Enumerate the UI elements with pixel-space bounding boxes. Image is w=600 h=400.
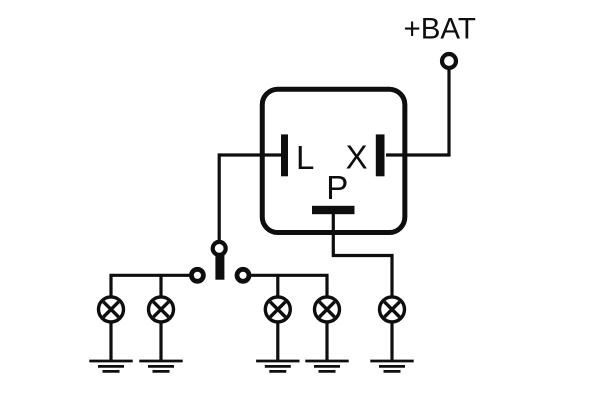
wire: left branch from switch contact to lamps (111, 275, 190, 298)
switch pivot circle (213, 242, 226, 255)
ground 5 (370, 361, 413, 371)
wire: right branch stem lamp 3 (276, 275, 279, 298)
terminal bar P (312, 206, 355, 214)
wire: L terminal left and down to switch pivot (219, 155, 284, 243)
switch right contact (237, 269, 249, 281)
switch left contact (191, 269, 203, 281)
wire: P terminal down, right, down to pilot lamp (333, 212, 392, 298)
terminal bar X (376, 134, 385, 176)
wire: lamp 4 to ground (325, 322, 328, 361)
battery terminal circle (442, 54, 456, 68)
ground 1 (89, 361, 132, 371)
label P (326, 169, 348, 206)
wire: left branch stem lamp 2 (159, 275, 162, 298)
lamp 5 (pilot) (380, 297, 405, 322)
svg-text:L: L (296, 139, 314, 176)
wire: +BAT terminal down and left to X terminal (386, 66, 449, 155)
lamp 3 (265, 297, 290, 322)
lamp 2 (149, 297, 174, 322)
switch lever (215, 253, 224, 280)
wire: lamp 3 to ground (276, 322, 279, 361)
relay box U1 (262, 89, 405, 232)
ground 4 (305, 361, 348, 371)
terminal bar L (281, 134, 288, 176)
wire: lamp 5 to ground (390, 322, 393, 361)
svg-text:+BAT: +BAT (404, 13, 476, 46)
label X (346, 139, 368, 176)
label L (296, 139, 314, 176)
ground 3 (256, 361, 299, 371)
wire: lamp 1 to ground (109, 322, 112, 361)
wire: lamp 2 to ground (159, 322, 162, 361)
svg-text:P: P (326, 169, 348, 206)
lamp 1 (99, 297, 124, 322)
ground 2 (139, 361, 182, 371)
lamp 4 (315, 297, 340, 322)
wire: right branch from switch contact to lamps (250, 275, 327, 298)
label +BAT (404, 13, 476, 46)
svg-text:X: X (346, 139, 368, 176)
